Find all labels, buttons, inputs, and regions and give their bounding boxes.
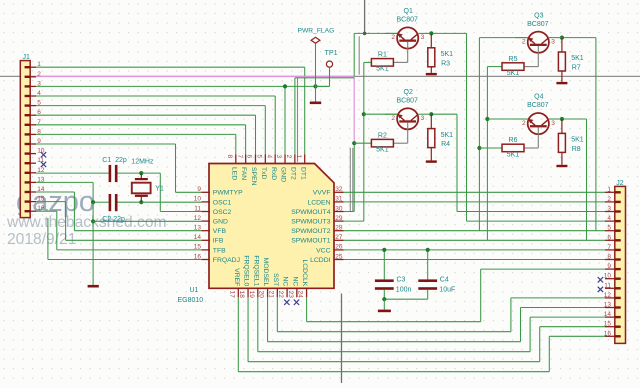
- J2 pin 2: [605, 201, 621, 203]
- svg-text:C4: C4: [440, 277, 449, 284]
- svg-text:26: 26: [335, 244, 343, 251]
- svg-text:20: 20: [258, 291, 265, 299]
- svg-text:5: 5: [37, 100, 41, 107]
- svg-text:R8: R8: [572, 146, 581, 153]
- svg-text:J2: J2: [616, 180, 624, 187]
- U1 pin 32 VVVF: [334, 191, 344, 193]
- svg-text:SPWMOUT4: SPWMOUT4: [291, 209, 330, 216]
- svg-text:14: 14: [37, 186, 45, 193]
- svg-text:PWMTYP: PWMTYP: [213, 190, 243, 197]
- J1 pin 14: [25, 191, 36, 193]
- svg-text:6: 6: [246, 155, 253, 159]
- wire Q1 emitter left: [354, 32, 397, 34]
- svg-text:LED: LED: [230, 167, 237, 180]
- svg-text:32: 32: [335, 186, 343, 193]
- svg-text:3: 3: [37, 80, 41, 87]
- wire J1 pin12 to C1: [36, 172, 109, 174]
- junction dark gray line end: [363, 32, 367, 36]
- U1 pin 25 LCDDI: [334, 259, 344, 261]
- wire U1 pin26 VCC row to J2 pin7: [344, 249, 606, 251]
- svg-text:R3: R3: [441, 60, 450, 67]
- U1 pin 4 RxD: [274, 154, 276, 164]
- svg-text:15: 15: [194, 244, 202, 251]
- svg-text:25: 25: [335, 253, 343, 260]
- svg-text:R2: R2: [378, 132, 387, 139]
- wire C1 right to crystal top node: [117, 172, 141, 174]
- wire J1 pin16 to U1 TFB: [36, 210, 57, 212]
- J2 pin 11: [605, 287, 621, 289]
- J1 pin 4: [25, 95, 36, 97]
- svg-text:10: 10: [37, 148, 45, 155]
- svg-text:OSC2: OSC2: [213, 209, 232, 216]
- junction Q4 emitter net: [485, 117, 489, 121]
- svg-text:VFB: VFB: [213, 228, 227, 235]
- J2 pin 4: [605, 220, 621, 222]
- junction crystal bottom: [139, 200, 143, 204]
- svg-text:R5: R5: [509, 56, 518, 63]
- junction PWR_FLAG node: [313, 84, 317, 88]
- U1 pin 3 GND: [284, 154, 286, 164]
- no-connect cross U1 pin23: [294, 300, 299, 305]
- wire C2 left node: [93, 201, 109, 203]
- U1 pin 9 PWMTYP: [202, 191, 211, 193]
- svg-text:5K1: 5K1: [571, 55, 584, 62]
- resistor R6 base resistor: [502, 144, 524, 152]
- svg-text:7: 7: [37, 119, 41, 126]
- junction collector Q1: [429, 31, 433, 35]
- capacitor C4: [427, 250, 429, 280]
- svg-text:2: 2: [37, 71, 41, 78]
- wire Q4 collector drop: [562, 118, 587, 120]
- wire J1 pin8 to U1 pin8 LED: [36, 133, 236, 135]
- svg-text:LCDDI: LCDDI: [310, 257, 331, 264]
- svg-text:C1 22p: C1 22p: [102, 157, 127, 164]
- svg-text:LCDCLK: LCDCLK: [301, 259, 308, 286]
- wire U1 FRQSEL1 pin19 to J2: [257, 297, 259, 351]
- svg-text:10: 10: [194, 196, 202, 203]
- IC U1 EG8010: [209, 164, 334, 289]
- wire PWR_FLAG stem: [315, 44, 317, 87]
- J2 pin 16: [605, 335, 621, 337]
- svg-text:14: 14: [194, 234, 202, 241]
- svg-text:13: 13: [194, 225, 202, 232]
- wire R2 left link: [354, 142, 371, 144]
- svg-text:27: 27: [335, 234, 343, 241]
- svg-text:TxD: TxD: [260, 167, 267, 180]
- wire crystal bottom to U1 OSC1: [141, 201, 201, 203]
- svg-text:29: 29: [335, 215, 343, 222]
- wire Q3 emitter: [515, 37, 527, 39]
- svg-text:14: 14: [604, 311, 612, 318]
- wire Q3 emitter net vertical: [478, 38, 480, 231]
- ground symbol R4: [426, 160, 437, 162]
- J1 pin 7: [25, 124, 36, 126]
- wire Q1 emitter: [385, 32, 397, 34]
- svg-text:17: 17: [228, 291, 235, 299]
- svg-text:7: 7: [607, 244, 611, 251]
- junction collector Q2: [429, 112, 433, 116]
- svg-text:18: 18: [238, 291, 245, 299]
- svg-text:3: 3: [421, 115, 425, 122]
- svg-text:Q1: Q1: [404, 8, 413, 15]
- wire U1 VREF pin17 to J2: [237, 297, 239, 371]
- crystal Y1 12MHz: [140, 173, 142, 178]
- U1 pin 26 VCC: [334, 249, 344, 251]
- svg-text:11: 11: [37, 157, 44, 164]
- svg-text:16: 16: [37, 205, 45, 212]
- svg-text:SPWMOUT1: SPWMOUT1: [291, 238, 330, 245]
- resistor R4 collector resistor: [430, 114, 432, 128]
- J2 pin 13: [605, 307, 621, 309]
- svg-text:GND: GND: [280, 167, 287, 182]
- U1 pin 8 LED: [235, 154, 237, 164]
- svg-text:SPWMOUT3: SPWMOUT3: [291, 219, 330, 226]
- U1 pin 14 IFB: [202, 239, 211, 241]
- svg-text:5: 5: [256, 155, 263, 159]
- svg-text:10: 10: [604, 273, 612, 280]
- wire J1 pin5 to U1 pin5 TxD: [36, 105, 265, 107]
- J1 pin 13: [25, 181, 36, 183]
- U1 pin 2 DT2: [294, 154, 296, 164]
- svg-text:DT1: DT1: [299, 167, 306, 180]
- wire Q1 collector: [418, 32, 431, 34]
- U1 pin 23 NC: [296, 288, 298, 298]
- svg-text:3: 3: [551, 38, 555, 45]
- svg-text:IFB: IFB: [213, 238, 224, 245]
- ground symbol crystal circuit: [88, 285, 99, 288]
- base lead of Q4: [537, 127, 539, 148]
- junction crystal top: [139, 171, 143, 175]
- J1 pin 15: [25, 201, 36, 203]
- J2 pin 8: [605, 259, 621, 261]
- wire R1 left link: [364, 61, 372, 63]
- transistor Q3 BC807: [528, 32, 549, 53]
- svg-text:BC807: BC807: [396, 97, 418, 104]
- no-connect cross J2 pin10: [598, 277, 603, 282]
- J1 pin 11: [25, 162, 36, 164]
- svg-text:12: 12: [194, 215, 202, 222]
- svg-text:SST: SST: [272, 273, 279, 286]
- wire GND row to U1 pin12: [93, 220, 201, 222]
- no-connect cross J1 pin11: [41, 162, 46, 167]
- U1 pin 6 SPEN: [254, 154, 256, 164]
- svg-text:5K1: 5K1: [571, 137, 584, 144]
- junction Q2 emitter net: [362, 112, 366, 116]
- svg-text:VVVF: VVVF: [313, 190, 331, 197]
- junction C2 left: [91, 200, 95, 204]
- wire U1 pin25 LCDDI row to J2 pin8: [344, 259, 606, 261]
- svg-text:Q4: Q4: [534, 94, 543, 101]
- svg-text:NC: NC: [282, 276, 289, 286]
- J2 pin 7: [605, 249, 621, 251]
- wire J1 pin7 to U1 pin7 FAN: [36, 124, 246, 126]
- wire R5 left link and vertical: [487, 66, 502, 68]
- svg-text:11: 11: [604, 282, 611, 289]
- svg-text:OSC1: OSC1: [213, 199, 232, 206]
- svg-text:SPEN: SPEN: [250, 167, 257, 186]
- svg-text:1: 1: [37, 61, 41, 68]
- wire U1 pin31 LCDEN to J2 pin2: [344, 201, 606, 203]
- J1 pin 1: [25, 66, 36, 68]
- resistor R5 base resistor: [502, 63, 524, 71]
- J1 pin 6: [25, 114, 36, 116]
- svg-text:9: 9: [197, 186, 201, 193]
- base lead of Q3: [537, 46, 539, 67]
- svg-text:U1: U1: [190, 287, 199, 294]
- J2 pin 15: [605, 326, 621, 328]
- svg-text:16: 16: [194, 253, 202, 260]
- svg-text:19: 19: [248, 291, 255, 299]
- no-connect cross J2 pin11: [598, 287, 603, 292]
- svg-text:R6: R6: [509, 137, 518, 144]
- svg-text:FRQADJ: FRQADJ: [213, 257, 240, 264]
- wire TP1 to GND node: [329, 67, 331, 86]
- J1 pin 5: [25, 105, 36, 107]
- junction C3 bottom: [382, 297, 386, 301]
- wire Q4 collector: [549, 118, 562, 120]
- svg-text:RxD: RxD: [270, 167, 277, 180]
- svg-text:9: 9: [37, 138, 41, 145]
- svg-text:3: 3: [275, 155, 282, 159]
- gray vertical line near U1 pin 2: [297, 78, 299, 162]
- wire U1 pin2 DT2 up and right: [294, 78, 296, 155]
- J1 pin 2: [25, 76, 36, 78]
- svg-text:5K1: 5K1: [507, 151, 520, 158]
- svg-text:16: 16: [604, 330, 612, 337]
- wire J1 pin1 to U1 pin1 DT1: [36, 66, 305, 68]
- J2 pin 12: [605, 297, 621, 299]
- U1 pin 24 LCDCLK: [306, 288, 308, 298]
- capacitor C2: [109, 194, 112, 211]
- svg-text:8: 8: [226, 155, 233, 159]
- junction collector Q4: [560, 117, 564, 121]
- svg-text:BC807: BC807: [527, 21, 549, 28]
- svg-text:15: 15: [604, 321, 612, 328]
- svg-text:24: 24: [297, 291, 304, 299]
- J1 pin 12: [25, 172, 36, 174]
- U1 pin 12 GND: [202, 220, 211, 222]
- svg-text:12: 12: [37, 167, 45, 174]
- wire Q4 emitter left: [487, 118, 527, 120]
- svg-text:VCC: VCC: [316, 247, 330, 254]
- U1 pin 21 SST: [276, 288, 278, 298]
- svg-text:1: 1: [295, 155, 302, 159]
- svg-text:9: 9: [607, 263, 611, 270]
- svg-text:2: 2: [391, 34, 395, 41]
- svg-text:J1: J1: [23, 54, 31, 61]
- gray vertical line top center: [364, 0, 366, 33]
- wire Q1 emitter net vertical: [353, 33, 355, 76]
- svg-text:8: 8: [37, 128, 41, 135]
- svg-text:15: 15: [37, 196, 45, 203]
- wire J1 pin3 GND row: [36, 85, 330, 87]
- J2 pin 14: [605, 316, 621, 318]
- U1 pin 30 SPWMOUT4: [334, 211, 344, 213]
- svg-text:6: 6: [607, 234, 611, 241]
- wire J1 pin15 to U1 IFB: [36, 201, 66, 203]
- svg-text:12: 12: [604, 292, 612, 299]
- J1 pin 8: [25, 133, 36, 135]
- svg-text:Q3: Q3: [534, 12, 543, 19]
- wire J1 pin4 to U1 pin4: [36, 95, 275, 97]
- junction C3 top VCC: [382, 248, 386, 252]
- svg-text:13: 13: [37, 176, 45, 183]
- svg-text:TP1: TP1: [325, 48, 338, 57]
- svg-text:2: 2: [522, 120, 526, 127]
- base lead of Q2: [407, 123, 409, 144]
- J2 pin 9: [605, 268, 621, 270]
- wire C2 right to crystal bottom node: [117, 201, 141, 203]
- junction C4 top VCC: [426, 248, 430, 252]
- svg-text:FRQSEL0: FRQSEL0: [243, 255, 250, 286]
- junction GND row: [91, 219, 95, 223]
- wire U1 LCDCLK pin24 to J2: [306, 297, 308, 321]
- svg-text:8: 8: [607, 254, 611, 261]
- wire J1 pin14 to U1 VFB: [36, 191, 74, 193]
- svg-text:5K1: 5K1: [441, 51, 454, 58]
- wire crystal top to U1 OSC2: [141, 172, 160, 174]
- wire J1 pin2 VVVF pink net: [36, 76, 354, 78]
- svg-text:5K1: 5K1: [376, 147, 389, 154]
- svg-text:2: 2: [391, 115, 395, 122]
- resistor R7 collector resistor: [561, 38, 563, 52]
- U1 pin 29 SPWMOUT3: [334, 220, 344, 222]
- wire U1 pin30 SPWMOUT4 stub: [344, 211, 355, 213]
- svg-text:2: 2: [285, 155, 292, 159]
- svg-text:5: 5: [607, 225, 611, 232]
- svg-text:31: 31: [335, 196, 343, 203]
- svg-text:7: 7: [236, 155, 243, 159]
- junction collector Q3: [560, 36, 564, 40]
- svg-text:23: 23: [287, 291, 294, 299]
- wire SPWMOUT3 vertical R1 Q2 net: [363, 62, 365, 221]
- svg-text:100n: 100n: [396, 287, 412, 294]
- svg-text:SPWMOUT2: SPWMOUT2: [291, 228, 330, 235]
- wire U1 FRQADJ row: [47, 218, 49, 260]
- svg-text:FAN: FAN: [240, 167, 247, 180]
- wire Q1 collector to J2 pin4: [431, 32, 466, 34]
- U1 pin 22 NC: [286, 288, 288, 298]
- wire Q2 emitter left: [364, 113, 397, 115]
- resistor R2 base resistor: [371, 139, 393, 147]
- connector J2: [615, 186, 626, 343]
- svg-text:C2 22p: C2 22p: [102, 216, 125, 223]
- wire Q2 emitter: [385, 113, 397, 115]
- svg-text:TFB: TFB: [213, 247, 226, 254]
- wire Q3 emitter left: [479, 37, 527, 39]
- wire J1 pin9 to U1 pin9 PWMTYP: [36, 143, 176, 145]
- svg-text:PWR_FLAG: PWR_FLAG: [298, 28, 335, 35]
- ground symbol R3: [426, 73, 437, 75]
- U1 pin 10 OSC1: [202, 201, 211, 203]
- wire OSC GND vertical: [92, 202, 94, 285]
- J2 pin 3: [605, 211, 621, 213]
- ground symbol C3 C4: [383, 299, 385, 309]
- wire U1 FRQSEL0 pin18 to J2: [247, 297, 249, 361]
- svg-text:10uF: 10uF: [439, 287, 455, 294]
- U1 pin 20 MODSEL: [267, 288, 269, 298]
- svg-text:5K1: 5K1: [376, 66, 389, 73]
- svg-text:2: 2: [607, 196, 611, 203]
- svg-text:GND: GND: [213, 219, 228, 226]
- wire Q3 collector: [549, 37, 562, 39]
- wire U1 pin32 VVVF to J2 pin1: [344, 191, 606, 193]
- svg-text:EG8010: EG8010: [178, 297, 204, 304]
- svg-text:4: 4: [37, 90, 41, 97]
- gray vertical line segment: [358, 36, 360, 74]
- junction pink R2 node: [352, 141, 356, 145]
- wire U1 MODSEL pin20 to J2: [267, 297, 269, 341]
- J1 pin 10: [25, 153, 36, 155]
- wire U1 pin29 SPWMOUT3 stub: [344, 220, 364, 222]
- wire J1 pin13 down to OSC1 node: [36, 181, 93, 183]
- svg-text:MODSEL: MODSEL: [262, 258, 269, 287]
- ground symbol R7: [556, 82, 567, 84]
- transistor Q1 BC807: [397, 27, 418, 48]
- capacitor C1: [109, 165, 112, 182]
- U1 pin 19 FRQSEL1: [257, 288, 259, 298]
- no-connect cross J1 pin10: [41, 152, 46, 157]
- wire U1 pin3 GND drop: [284, 86, 286, 154]
- svg-text:11: 11: [194, 205, 201, 212]
- J1 pin 16: [25, 210, 36, 212]
- svg-text:Y1: Y1: [155, 186, 164, 193]
- J2 pin 6: [605, 239, 621, 241]
- U1 pin 5 TxD: [264, 154, 266, 164]
- svg-text:Q2: Q2: [404, 89, 413, 96]
- svg-text:3: 3: [551, 120, 555, 127]
- wire U1 SST pin21 to J2: [276, 297, 278, 331]
- svg-text:VREF: VREF: [233, 268, 240, 286]
- wire J1 pin6 to U1 pin6 SPEN: [36, 114, 256, 116]
- J1 pin 3: [25, 85, 36, 87]
- ground symbol at PWR_FLAG: [315, 86, 317, 101]
- junction R6 left: [477, 146, 481, 150]
- wire U1 pin27 SPWMOUT1 row to J2 pin6: [344, 239, 606, 241]
- svg-text:3: 3: [607, 206, 611, 213]
- svg-text:R4: R4: [441, 141, 450, 148]
- svg-text:5K1: 5K1: [507, 70, 520, 77]
- svg-text:2: 2: [522, 38, 526, 45]
- U1 pin 27 SPWMOUT1: [334, 239, 344, 241]
- svg-text:BC807: BC807: [396, 17, 418, 24]
- gray vertical line pair left of U1 pin rows: [349, 148, 351, 212]
- wire C3 C4 bottom link: [384, 298, 427, 300]
- svg-text:4: 4: [607, 215, 611, 222]
- U1 pin 28 SPWMOUT2: [334, 230, 344, 232]
- svg-text:FRQSEL1: FRQSEL1: [252, 255, 259, 286]
- svg-text:BC807: BC807: [527, 102, 549, 109]
- wire Q2 collector to J2 pin3: [431, 113, 457, 115]
- svg-text:28: 28: [335, 225, 343, 232]
- J1 pin 9: [25, 143, 36, 145]
- svg-text:3: 3: [421, 34, 425, 41]
- connector J1: [20, 61, 30, 218]
- junction J1.3 / U1.3: [283, 84, 287, 88]
- J2 pin 10: [605, 278, 621, 280]
- wire Q4 emitter: [515, 118, 527, 120]
- svg-text:13: 13: [604, 302, 612, 309]
- U1 pin 16 FRQADJ: [202, 259, 211, 261]
- svg-text:R7: R7: [572, 65, 581, 72]
- svg-text:DT2: DT2: [289, 167, 296, 180]
- svg-text:21: 21: [267, 291, 274, 299]
- U1 pin 13 VFB: [202, 230, 211, 232]
- resistor R8 collector resistor: [561, 119, 563, 133]
- U1 pin 31 LCDEN: [334, 201, 344, 203]
- ground symbol R8: [556, 165, 567, 167]
- U1 pin 7 FAN: [245, 154, 247, 164]
